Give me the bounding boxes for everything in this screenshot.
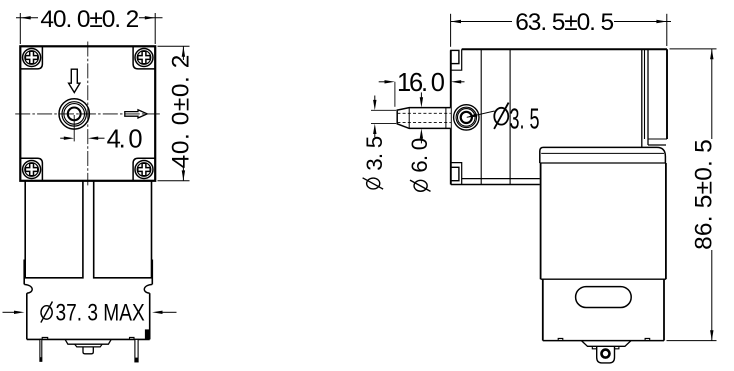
motor case front: bottom edge [27, 338, 150, 340]
dimension 16.0: right arrow [451, 80, 461, 83]
svg-text:4. 0: 4. 0 [107, 125, 143, 153]
dimension Ø6.0: text (rotated) [410, 180, 431, 191]
motor bottom edge (side) [543, 340, 664, 342]
corner pad top-right [133, 46, 155, 69]
motor case front: left edge upper [23, 260, 25, 285]
motor case front: left edge lower [26, 293, 28, 339]
head bottom edge [462, 178, 540, 180]
svg-text:6. 0: 6. 0 [407, 138, 432, 172]
motor cap (side) [540, 147, 666, 163]
motor case front: right edge upper [151, 260, 153, 285]
dimension 4.0 right arrow [88, 137, 98, 140]
terminal tab (side) [597, 346, 615, 363]
pump head square body [20, 46, 155, 181]
terminal pin right (front) [135, 339, 138, 362]
head corner pad top (side) [451, 49, 462, 70]
gasket line [644, 49, 646, 139]
svg-text:40. 0±0. 2: 40. 0±0. 2 [168, 54, 195, 168]
screw bottom-left [23, 161, 41, 179]
crimp mark bar (front right) [145, 329, 149, 339]
pump head front face [450, 50, 452, 184]
bottom tab right (side) [645, 338, 650, 340]
head screw side view top [451, 50, 459, 63]
inlet port concentric circles [59, 99, 89, 129]
nozzle collar [445, 108, 447, 129]
pump body right panel [94, 181, 152, 278]
port boss circles (side) [454, 105, 479, 130]
screw top-left [23, 49, 41, 67]
motor flange front face [647, 49, 649, 145]
motor body seam [541, 278, 666, 280]
motor flange rear face [666, 49, 668, 139]
motor case front: right crimp notch [144, 284, 152, 293]
nozzle cone/barb boundary [408, 108, 410, 129]
svg-text:3. 5: 3. 5 [362, 136, 387, 170]
motor cap seam [541, 152, 664, 154]
corner pad bottom-left [20, 158, 42, 181]
screw bottom-right [135, 161, 153, 179]
svg-text:37. 3 MAX: 37. 3 MAX [56, 298, 146, 326]
dimension Ø6.0: arrows [420, 92, 422, 97]
dimension 40.0±0.2 right: dimension line and arrows [182, 46, 184, 60]
dimension 4.0 extension line [73, 115, 75, 141]
dimension 63.5±0.5: extension lines [450, 14, 452, 47]
dimension 40.0±0.2 right: extension lines [158, 45, 190, 47]
bearing nub (front) [83, 347, 93, 354]
motor lower housing (side) [542, 279, 544, 340]
dimension 4.0 left arrow [60, 137, 64, 139]
head plate seam 1 [480, 49, 482, 184]
dimension 86.5±0.5: dimension line and arrows [711, 49, 713, 139]
corner pad bottom-right [133, 158, 155, 181]
dimension Ø37.3 MAX: right arrow [152, 311, 162, 314]
bearing boss step 2 (front) [75, 344, 103, 347]
horizontal centerline [15, 113, 160, 115]
svg-text:86. 5±0. 5: 86. 5±0. 5 [691, 139, 718, 250]
dimension Ø3.5 nozzle: extension lines [371, 109, 396, 111]
dimension Ø37.3 MAX: left arrow [3, 311, 15, 313]
svg-text:63. 5±0. 5: 63. 5±0. 5 [515, 9, 613, 36]
nozzle bore hidden lines [397, 112, 450, 114]
head corner pad bottom (side) [451, 163, 462, 185]
head plate seam 2 [509, 49, 511, 184]
leader text Ø3.5 [494, 103, 509, 129]
dimension Ø3.5 nozzle: text (rotated) [363, 178, 384, 189]
bearing boss step 1 (front) [65, 339, 111, 344]
dimension 40.0±0.2 top: dimension line and arrows [16, 17, 38, 19]
svg-text:3. 5: 3. 5 [510, 103, 540, 135]
terminal tab hole [602, 350, 610, 358]
motor case front: right edge lower [149, 293, 151, 339]
terminal tab shoulders [592, 346, 596, 349]
dimension 16.0: extension line at nozzle tip [394, 82, 396, 107]
vertical centerline [87, 42, 89, 186]
motor flange foot [648, 138, 667, 140]
leader line Ø3.5 [467, 111, 495, 117]
screw top-right [135, 49, 153, 67]
oval slot [576, 287, 632, 308]
head rear face [641, 49, 643, 147]
terminal pin left (front) [40, 339, 42, 361]
corner pad top-left [20, 46, 42, 69]
bottom tab right (front) [130, 337, 135, 339]
motor case front: left crimp notch [24, 284, 32, 293]
dimension 16.0: left arrow [379, 81, 385, 83]
head screw side view bottom [451, 167, 459, 180]
pump body left panel [25, 181, 83, 278]
dimension Ø3.5 nozzle: arrows [374, 96, 376, 101]
dimension 63.5±0.5: dimension line and arrows [451, 21, 512, 23]
nozzle outline [397, 108, 451, 129]
bearing boss (side) [581, 341, 631, 347]
svg-text:40. 0±0. 2: 40. 0±0. 2 [40, 6, 138, 33]
dimension 40.0±0.2 top: extension lines [19, 13, 21, 44]
dimension 86.5±0.5: extension lines [670, 48, 717, 50]
flow arrow right (hollow) [125, 110, 147, 118]
motor body (side) [540, 163, 542, 279]
bottom tab left (side) [558, 338, 563, 340]
flow arrow down (hollow) [69, 69, 80, 92]
dimension Ø37.3 MAX: text [41, 302, 53, 323]
pump head top edge [462, 48, 667, 50]
bottom tab left (front) [42, 337, 48, 339]
